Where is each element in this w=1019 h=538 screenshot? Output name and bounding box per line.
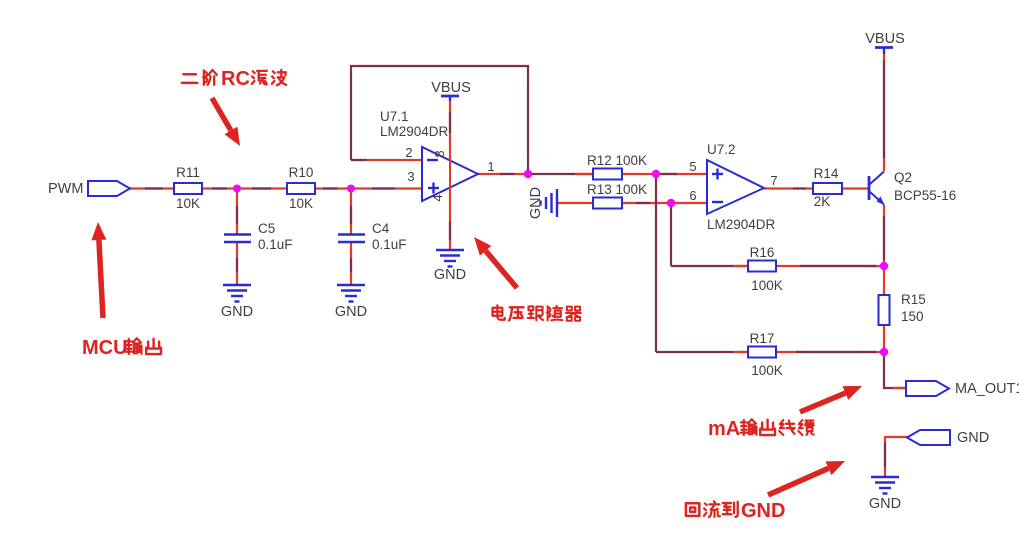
capacitor C5 [224,221,293,252]
wire node N6 to R15 [883,266,885,295]
transistor Q2 [869,170,956,205]
pin 3 label [407,169,414,184]
svg-text:R10: R10 [289,165,314,180]
svg-text:8: 8 [432,150,447,157]
svg-text:R15: R15 [901,292,926,307]
svg-text:U7.1: U7.1 [380,109,409,124]
annotation arrow to mA output [800,386,862,412]
svg-text:RC: RC [221,68,250,90]
op-amp U7.2 [707,142,776,232]
annotation text MCU输出 [82,337,161,359]
annotation arrow to PWM input [91,222,106,318]
wire R13 to node N5 [622,202,671,204]
wire R17 row left segment [656,351,748,353]
wire node N4 down to R17 row [655,174,657,352]
svg-text:R13 100K: R13 100K [587,182,647,197]
wire U7.1 output pin 1 to node N3 [478,173,528,175]
wire U7.1 pin 4 to GND [449,188,451,250]
wire node N3 to R12 [528,173,593,175]
svg-text:150: 150 [901,309,924,324]
svg-text:7: 7 [770,173,777,188]
svg-text:C5: C5 [258,221,275,236]
pin 4 label [430,194,445,201]
svg-text:2K: 2K [814,194,831,209]
svg-text:GND: GND [741,500,785,522]
wire R10 to node N2 [315,187,351,189]
junction node N7 [880,348,888,356]
annotation arrow to voltage follower [474,237,517,288]
resistor R10 [287,165,315,211]
wire Q2 emitter to node N6 [883,205,885,266]
annotation text 二阶RC滤波 [182,68,286,90]
pin 8 label [432,150,447,157]
ground GND under C5 [221,285,253,320]
resistor R12 [587,153,647,180]
svg-text:R11: R11 [176,165,200,180]
wire GND port to GND symbol [885,437,907,477]
svg-text:GND: GND [957,430,989,446]
wire PWM port to R11 [128,187,174,189]
svg-text:VBUS: VBUS [431,80,471,96]
pin 5 label [689,159,696,174]
svg-text:GND: GND [869,496,901,512]
wire GND to R13 [558,202,593,204]
port MA_OUT1 [906,381,1019,397]
wire node N4 to U7.2 pin 5 [656,173,707,175]
wire node N5 to U7.2 pin 6 [671,202,707,204]
wire node N1 to R10 [237,187,287,189]
wire U7.2 pin 7 to R14 [764,187,813,189]
svg-text:4: 4 [430,194,445,201]
resistor R15 [879,292,926,325]
svg-text:R12 100K: R12 100K [587,153,647,168]
resistor R14 [813,166,842,209]
wire node N5 down to R16 row [670,203,672,266]
pin 2 label [405,145,412,160]
annotation text 回流到GND [686,500,786,522]
svg-text:R16: R16 [750,245,775,260]
wire R14 to Q2 base [842,187,869,189]
resistor R11 [174,165,202,211]
svg-text:3: 3 [407,169,414,184]
junction node N3 [524,170,532,178]
svg-text:LM2904DR: LM2904DR [707,217,776,232]
pin 6 label [689,188,696,203]
junction node N1 [233,185,241,193]
svg-text:0.1uF: 0.1uF [372,237,407,252]
svg-text:10K: 10K [289,196,313,211]
svg-text:1: 1 [487,159,494,174]
resistor R17 [748,331,783,378]
svg-text:GND: GND [528,187,544,219]
svg-text:10K: 10K [176,196,200,211]
annotation arrow to GND return [768,461,845,495]
wire R16 to node N6 [776,265,884,267]
svg-text:MCU: MCU [82,337,128,359]
wire pin 2 stub [351,159,422,161]
ground GND sideways at R13 [528,187,557,219]
ground GND under GND port [869,477,901,512]
resistor R13 [587,182,647,209]
wire node N2 to C4 [350,189,352,235]
wire node N2 to U7.1 pin 3 [351,187,422,189]
svg-text:0.1uF: 0.1uF [258,237,293,252]
wire R16 row left segment [671,265,748,267]
svg-text:GND: GND [434,267,466,283]
svg-text:Q2: Q2 [894,170,912,185]
annotation arrow to RC filter node [212,98,240,146]
wire R12 to node N4 [622,173,656,175]
svg-text:LM2904DR: LM2904DR [380,124,449,139]
wire node N1 to C5 [236,189,238,235]
svg-text:GND: GND [221,304,253,320]
svg-text:2: 2 [405,145,412,160]
wire node N7 to MA_OUT1 port [884,352,906,388]
wire C5 to GND [236,242,238,285]
annotation text 电压跟随器 [493,305,581,320]
ground GND under U7.1 pin 4 [434,250,466,283]
port PWM [48,181,130,197]
wire R15 to node N7 [883,325,885,352]
wire R17 to node N7 [776,351,884,353]
op-amp U7.1 [380,109,478,201]
svg-text:mA: mA [708,418,740,440]
wire feedback loop U7.1 output to pin 2 [351,66,528,171]
junction node N6 [880,262,888,270]
svg-text:MA_OUT1: MA_OUT1 [955,381,1019,397]
wire VBUS to Q2 collector [883,53,885,171]
junction node N5 [667,199,675,207]
port GND return [907,430,989,446]
svg-text:BCP55-16: BCP55-16 [894,188,956,203]
capacitor C4 [338,221,407,252]
svg-text:R17: R17 [750,331,775,346]
wire C4 to GND [350,242,352,285]
pin 1 label [487,159,494,174]
svg-text:100K: 100K [751,278,783,293]
annotation text mA输出线缆 [708,418,814,440]
ground GND under C4 [335,285,367,320]
svg-text:6: 6 [689,188,696,203]
svg-text:VBUS: VBUS [865,31,905,47]
svg-text:100K: 100K [751,363,783,378]
junction node N2 [347,185,355,193]
junction node N4 [652,170,660,178]
svg-text:C4: C4 [372,221,390,236]
wire R11 to node N1 [202,187,237,189]
power VBUS above Q2 [865,31,905,54]
svg-text:R14: R14 [814,166,839,181]
svg-text:U7.2: U7.2 [707,142,736,157]
svg-text:PWM: PWM [48,181,83,197]
pin 7 label [770,173,777,188]
svg-text:GND: GND [335,304,367,320]
power VBUS above U7.1 [431,80,471,101]
wire VBUS to U7.1 pin 8 [449,100,451,161]
resistor R16 [748,245,783,293]
svg-text:5: 5 [689,159,696,174]
